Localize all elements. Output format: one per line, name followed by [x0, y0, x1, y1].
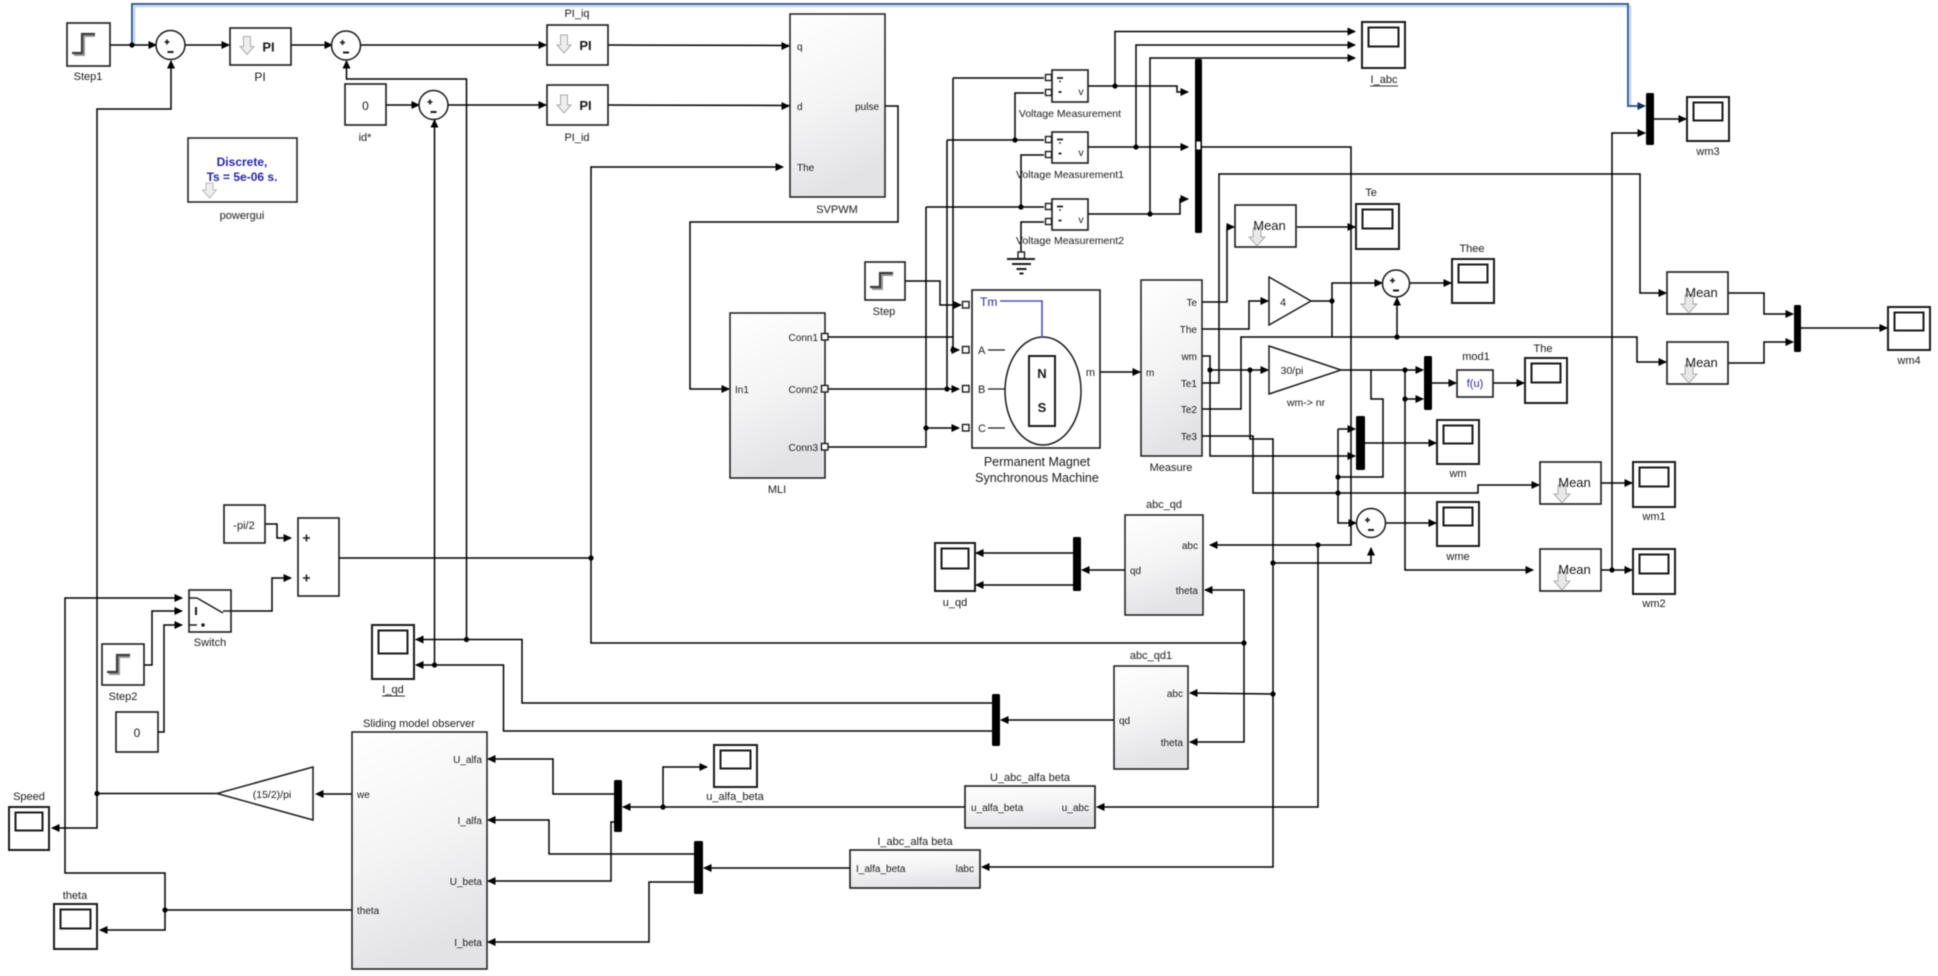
- svg-text:wm4: wm4: [1896, 355, 1920, 367]
- wire wm4 mux output to wm4 scope: [1801, 327, 1887, 329]
- constant block 0: [116, 712, 158, 752]
- svg-text:Voltage Measurement2: Voltage Measurement2: [1016, 235, 1124, 247]
- svg-text:mod1: mod1: [1462, 351, 1490, 363]
- svg-text:SVPWM: SVPWM: [816, 204, 858, 216]
- subsystem block MLI: [730, 313, 825, 478]
- transform block I_abc_alfa_beta: [850, 850, 980, 888]
- svg-text:The: The: [797, 163, 815, 174]
- svg-text:I_abc_alfa beta: I_abc_alfa beta: [877, 836, 953, 848]
- svg-text:wm3: wm3: [1695, 146, 1719, 158]
- svg-text:PI_id: PI_id: [564, 132, 589, 144]
- svg-text:v: v: [1078, 214, 1084, 226]
- wire Thee sum output to Thee scope: [1409, 282, 1451, 284]
- svg-text:I_alfa_beta: I_alfa_beta: [856, 864, 906, 875]
- gain block 30/pi (wm to nr): [1269, 346, 1341, 394]
- svg-text:pulse: pulse: [855, 102, 879, 113]
- svg-text:C: C: [978, 423, 986, 435]
- gain block (15/2)/pi pointing left: [217, 767, 313, 820]
- wire 30/pi output to mod1 mux and Mean4; zigzag to wm mux input1: [1341, 369, 1423, 371]
- svg-text:Te2: Te2: [1181, 405, 1198, 416]
- svg-text:wme: wme: [1445, 551, 1469, 563]
- demux current bar (i_qd): [992, 694, 1000, 746]
- wire abc_qd1 qd output to current demux: [1001, 719, 1114, 721]
- svg-text:theta: theta: [1161, 738, 1184, 749]
- big mux bar (voltage/current bus): [1195, 59, 1202, 233]
- svg-text:u_abc: u_abc: [1062, 803, 1089, 814]
- sum junction Thee sum: [1383, 270, 1410, 297]
- svg-text:Ts = 5e-06 s.: Ts = 5e-06 s.: [207, 170, 278, 184]
- svg-text:Mean: Mean: [1558, 562, 1591, 577]
- wire branch to abc_qd1 abc input: [1190, 693, 1273, 694]
- powergui block: [188, 138, 297, 202]
- svg-text:we: we: [356, 790, 370, 801]
- Mean block (wm2): [1540, 549, 1601, 591]
- svg-text:abc_qd1: abc_qd1: [1130, 650, 1172, 662]
- demux current alfa beta bar: [694, 841, 703, 894]
- svg-text:I_qd: I_qd: [382, 684, 403, 696]
- subsystem block abc_qd1: [1114, 666, 1188, 769]
- PI controller block PI: [230, 28, 291, 65]
- sum block rectangular: [298, 518, 339, 596]
- svg-text:wm: wm: [1180, 352, 1197, 363]
- wire Step2 output to Switch input2: [144, 611, 182, 665]
- svg-text:Voltage Measurement1: Voltage Measurement1: [1016, 169, 1124, 181]
- svg-text:v: v: [1078, 147, 1084, 159]
- step source Step2: [102, 644, 144, 685]
- svg-text:d: d: [797, 102, 803, 113]
- Mean block (wm1): [1540, 462, 1601, 504]
- svg-text:In1: In1: [735, 385, 749, 396]
- demux u_alfa_beta bar: [614, 780, 622, 832]
- svg-text:Conn2: Conn2: [789, 385, 819, 396]
- demux u_qd bar: [1073, 537, 1081, 591]
- wire Switch output to sum-rect input2: [231, 578, 291, 611]
- wire -pi/2 constant to sum-rect input1: [265, 524, 291, 538]
- svg-text:wm2: wm2: [1641, 598, 1665, 610]
- svg-text:Step2: Step2: [109, 691, 138, 703]
- wire branch to wme sum plus input: [1338, 429, 1356, 523]
- subsystem block Sliding mode observer: [352, 732, 487, 969]
- svg-text:I_alfa: I_alfa: [458, 816, 483, 827]
- wire wm mux output to wm scope: [1365, 442, 1436, 444]
- svg-text:B: B: [978, 384, 985, 396]
- wire current demux output2 to I_qd scope input2 and id feedback: [416, 665, 992, 731]
- PI controller block PI_id: [547, 85, 608, 125]
- wire Sum3 to PI_iq: [360, 44, 546, 46]
- wire U_abc_alfa_beta output to u demux and u_alfa_beta scope: [623, 806, 965, 808]
- mux wm bar: [1356, 416, 1365, 470]
- svg-text:Thee: Thee: [1459, 243, 1484, 255]
- wire id* constant to Sum2: [386, 104, 419, 106]
- svg-text:U_beta: U_beta: [450, 877, 483, 888]
- svg-text:U_alfa: U_alfa: [453, 755, 482, 766]
- sum junction wme sum: [1357, 509, 1386, 538]
- wire Step torque to PMSM Tm input: [905, 281, 961, 305]
- scope wme: [1437, 502, 1479, 546]
- Mean block (wm4 top): [1667, 272, 1728, 314]
- wire wme sum output to wme scope: [1385, 522, 1436, 524]
- wire Voltage Measurement1 minus chain to Voltage Measurement2 plus: [1021, 155, 1044, 207]
- wire mod1 mux output to f(u): [1432, 382, 1456, 384]
- svg-text:wm1: wm1: [1641, 511, 1665, 523]
- svg-text:Te: Te: [1186, 298, 1197, 309]
- wire Mean to Te scope: [1297, 226, 1355, 228]
- svg-text:Te: Te: [1365, 187, 1377, 199]
- svg-text:Te3: Te3: [1181, 432, 1198, 443]
- svg-text:Conn3: Conn3: [789, 443, 819, 454]
- wire SMO theta output to theta scope and Switch input1: [165, 909, 352, 911]
- wire demux2 output2 to SMO I_beta input: [488, 882, 694, 942]
- wire gain (15/2)/pi output to Speed scope and feedback junction: [97, 793, 217, 795]
- wire I_abc_alfa_beta output to current demux2: [704, 867, 850, 869]
- constant block id*: [345, 84, 386, 125]
- wire SMO we output to gain (15/2)/pi: [317, 793, 352, 795]
- svg-text:wm: wm: [1448, 468, 1466, 480]
- svg-text:The: The: [1534, 343, 1553, 355]
- wire iq feedback vertical to Sum3 minus input: [347, 61, 467, 640]
- wire u_qd demux outputs to u_qd scope: [976, 552, 1073, 554]
- svg-text:Step1: Step1: [74, 71, 103, 83]
- wire Mean1 output to wm4 mux input1: [1728, 293, 1793, 314]
- svg-text:theta: theta: [63, 890, 88, 902]
- Mean block (wm4 bottom): [1667, 342, 1728, 384]
- svg-text:PI: PI: [254, 70, 265, 84]
- subsystem block Measure: [1141, 280, 1202, 456]
- wire gain 4 output to Thee sum: [1311, 283, 1382, 301]
- svg-text:Te1: Te1: [1181, 379, 1198, 390]
- subsystem block SVPWM: [790, 14, 885, 197]
- svg-text:PI: PI: [579, 38, 591, 53]
- wire MLI Conn2 to PMSM B and Voltage Measurement1 plus: [825, 388, 959, 390]
- wire Voltage Measurement2 minus to ground: [1021, 222, 1044, 258]
- constant block -pi/2: [224, 505, 265, 543]
- scope wm3: [1687, 97, 1729, 141]
- svg-text:Step: Step: [873, 306, 896, 318]
- wire Measure wm output to gain 30/pi and wm mux input2: [1202, 356, 1268, 370]
- svg-text:Voltage Measurement: Voltage Measurement: [1019, 108, 1121, 120]
- wire Measure Te1 output long loop to Mean1: [1202, 174, 1666, 383]
- subsystem block abc_qd: [1125, 515, 1203, 615]
- wire wm3 mux output to wm3 scope: [1654, 118, 1686, 120]
- scope I_abc: [1362, 22, 1405, 68]
- wire constant 0 to Switch input3: [158, 625, 182, 732]
- voltage measurement block Voltage Measurement2: [1052, 199, 1088, 230]
- wire id feedback vertical to Sum2 minus input: [434, 120, 436, 665]
- switch block Switch: [189, 590, 231, 632]
- mux mod1 input bar: [1424, 356, 1432, 410]
- mux wm3 bar: [1646, 93, 1654, 145]
- svg-text:0: 0: [362, 99, 369, 113]
- wire theta net: sum-rect output to SVPWM The, abc_qd theta, abc_qd1 theta: [339, 557, 591, 559]
- svg-text:Sliding model observer: Sliding model observer: [363, 718, 475, 730]
- wire Mean2 output to wm4 mux input2: [1728, 342, 1793, 363]
- svg-text:MLI: MLI: [768, 484, 786, 496]
- function block f(u) mod1: [1457, 370, 1493, 397]
- mux wm4 bar: [1794, 305, 1801, 352]
- svg-text:I_abc: I_abc: [1371, 74, 1398, 86]
- svg-text:Mean: Mean: [1685, 355, 1718, 370]
- svg-text:qd: qd: [1130, 566, 1141, 577]
- voltage measurement block Voltage Measurement1: [1052, 132, 1088, 163]
- svg-text:4: 4: [1280, 297, 1286, 309]
- wire speed feedback from gain (15/2)/pi up to Sum1 minus input: [97, 61, 171, 794]
- svg-text:S: S: [1038, 400, 1047, 415]
- sum junction Sum1: [156, 31, 185, 60]
- svg-text:theta: theta: [1176, 586, 1199, 597]
- scope wm4: [1888, 307, 1930, 350]
- wire Sum2 to PI_id: [447, 104, 546, 106]
- svg-text:powergui: powergui: [220, 210, 265, 222]
- scope wm1: [1633, 462, 1675, 507]
- Mean block (Te): [1235, 205, 1296, 247]
- svg-text:PI: PI: [579, 98, 591, 113]
- step source Step1: [67, 23, 110, 66]
- svg-text:Tm: Tm: [980, 295, 997, 309]
- wire MLI Conn3 to PMSM C and Voltage Measurement2 plus: [825, 428, 959, 447]
- wire MLI Conn1 to PMSM A and Voltage Measurement plus: [825, 336, 953, 338]
- svg-text:Mean: Mean: [1558, 475, 1591, 490]
- svg-text:Switch: Switch: [194, 637, 226, 649]
- step source Step (torque): [865, 262, 905, 300]
- svg-text:v: v: [1078, 86, 1084, 98]
- sum junction Sum3: [332, 31, 361, 60]
- svg-text:m: m: [1086, 367, 1095, 379]
- wire Measure Te3 output to Mean3 (wm1): [1202, 436, 1539, 493]
- svg-text:m: m: [1146, 368, 1154, 379]
- wire Mean4 output to wm2 scope and up to wm3 mux: [1601, 569, 1632, 571]
- wire Voltage Measurement minus chain to Voltage Measurement1 plus: [1015, 93, 1044, 140]
- svg-text:Speed: Speed: [13, 791, 45, 803]
- svg-text:labc: labc: [956, 864, 974, 875]
- wire Sum1 to PI: [184, 44, 229, 46]
- scope wm2: [1633, 549, 1675, 594]
- svg-text:u_alfa_beta: u_alfa_beta: [971, 803, 1024, 814]
- wire demux2 output1 to SMO I_alfa input: [488, 820, 694, 854]
- svg-text:Permanent Magnet: Permanent Magnet: [984, 455, 1091, 469]
- wire SVPWM pulse output to MLI In1: [690, 106, 898, 389]
- wire speed-reference blue feedback (Step1 branch to wm3 mux): [135, 7, 1631, 108]
- svg-text:Conn1: Conn1: [789, 333, 819, 344]
- wire Te2 long net to Mean2 and Thee sum minus input: [1202, 337, 1666, 409]
- svg-text:Discrete,: Discrete,: [217, 155, 268, 169]
- wire Measure Te output up to Mean block: [1202, 227, 1234, 302]
- wire u demux output1 to SMO U_alfa input: [488, 759, 614, 794]
- svg-text:Synchronous Machine: Synchronous Machine: [975, 471, 1099, 485]
- scope wm: [1437, 420, 1479, 464]
- sum junction Sum2: [419, 91, 448, 120]
- svg-text:qd: qd: [1119, 716, 1130, 727]
- svg-text:PI_iq: PI_iq: [564, 8, 589, 20]
- wire Voltage Measurement2 output to mux and I_abc scope input 3: [1088, 199, 1188, 214]
- svg-text:theta: theta: [357, 906, 380, 917]
- wire wm branch down to I_abc_alfa_beta Iabc input via long vertical: [982, 370, 1273, 867]
- wire wme feedback from abc vertical to wme sum minus input: [1273, 548, 1371, 563]
- svg-text:Mean: Mean: [1253, 218, 1286, 233]
- svg-text:id*: id*: [359, 132, 373, 144]
- svg-text:(15/2)/pi: (15/2)/pi: [253, 789, 292, 801]
- wire abc_qd qd output to u_qd demux: [1082, 569, 1125, 571]
- wire Measure The output to gain 4 input: [1202, 301, 1268, 329]
- svg-text:The: The: [1180, 325, 1198, 336]
- wire current demux output1 to I_qd scope input1 and iq feedback: [416, 640, 992, 704]
- svg-text:abc_qd: abc_qd: [1146, 499, 1182, 511]
- svg-text:abc: abc: [1182, 541, 1198, 552]
- scope u_alfa_beta: [714, 745, 757, 787]
- svg-text:PI: PI: [262, 40, 274, 55]
- transform block U_abc_alfa_beta: [965, 786, 1095, 828]
- svg-text:u_alfa_beta: u_alfa_beta: [706, 791, 764, 803]
- wire Step1 output to Sum1: [110, 44, 156, 46]
- svg-text:wm-> nr: wm-> nr: [1286, 397, 1326, 409]
- wire Mean3 output to wm1 scope: [1601, 482, 1632, 484]
- svg-text:q: q: [797, 42, 803, 53]
- wire f(u) output to The scope: [1493, 382, 1524, 384]
- svg-text:30/pi: 30/pi: [1281, 365, 1304, 377]
- svg-text:A: A: [978, 345, 986, 357]
- wire u_abc net: mux output to abc_qd abc input and U_abc_alfa_beta u_abc input: [1202, 147, 1351, 545]
- svg-text:f(u): f(u): [1467, 378, 1484, 390]
- svg-text:-pi/2: -pi/2: [233, 520, 254, 532]
- Permanent Magnet Synchronous Machine block: [972, 290, 1100, 448]
- ground symbol: [1007, 259, 1035, 274]
- wire PI to Sum3: [291, 44, 332, 46]
- svg-text:u_qd: u_qd: [943, 597, 967, 609]
- scope u_qd: [935, 543, 975, 591]
- wire PI_id to SVPWM d input: [608, 104, 789, 107]
- svg-text:N: N: [1037, 366, 1046, 381]
- wire Voltage Measurement output to mux and I_abc scope input 1: [1088, 86, 1188, 92]
- svg-text:U_abc_alfa beta: U_abc_alfa beta: [990, 772, 1071, 784]
- wire Voltage Measurement1 output to mux and I_abc scope input 2: [1088, 146, 1188, 148]
- svg-text:0: 0: [134, 726, 141, 740]
- wire u demux output2 to SMO U_beta input: [488, 822, 614, 881]
- PI controller block PI_iq: [547, 25, 608, 65]
- scope I_qd: [372, 625, 414, 679]
- svg-text:Measure: Measure: [1150, 462, 1193, 474]
- svg-text:I_beta: I_beta: [454, 938, 482, 949]
- svg-text:abc: abc: [1167, 689, 1183, 700]
- voltage measurement block Voltage Measurement: [1052, 70, 1088, 102]
- svg-text:Mean: Mean: [1685, 285, 1718, 300]
- wire PMSM m output to Measure m input: [1100, 371, 1140, 373]
- wire PI_iq to SVPWM q input: [608, 44, 789, 47]
- gain block 4: [1269, 277, 1311, 325]
